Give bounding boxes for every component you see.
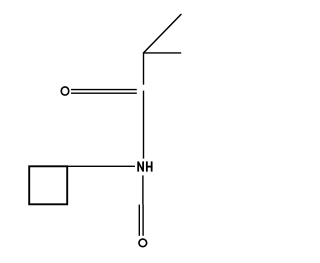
bond C2-C1 methyl diagonal (143, 14, 181, 53)
bond C2-C3 methyl horizontal (143, 52, 181, 54)
bond ring-N (67, 165, 135, 167)
double bond C5=O2 (139, 204, 143, 235)
atom O1 (61, 87, 69, 95)
atom O2 (139, 239, 147, 247)
bond N-C5 (142, 175, 144, 204)
double bond C4=O1 (71, 90, 137, 94)
bond C4-N vertical lower (143, 91, 145, 159)
atom N label (138, 161, 143, 171)
bond C2-C4 vertical upper (143, 52, 145, 84)
atom H label (147, 161, 152, 171)
cyclobutane ring (29, 166, 67, 204)
